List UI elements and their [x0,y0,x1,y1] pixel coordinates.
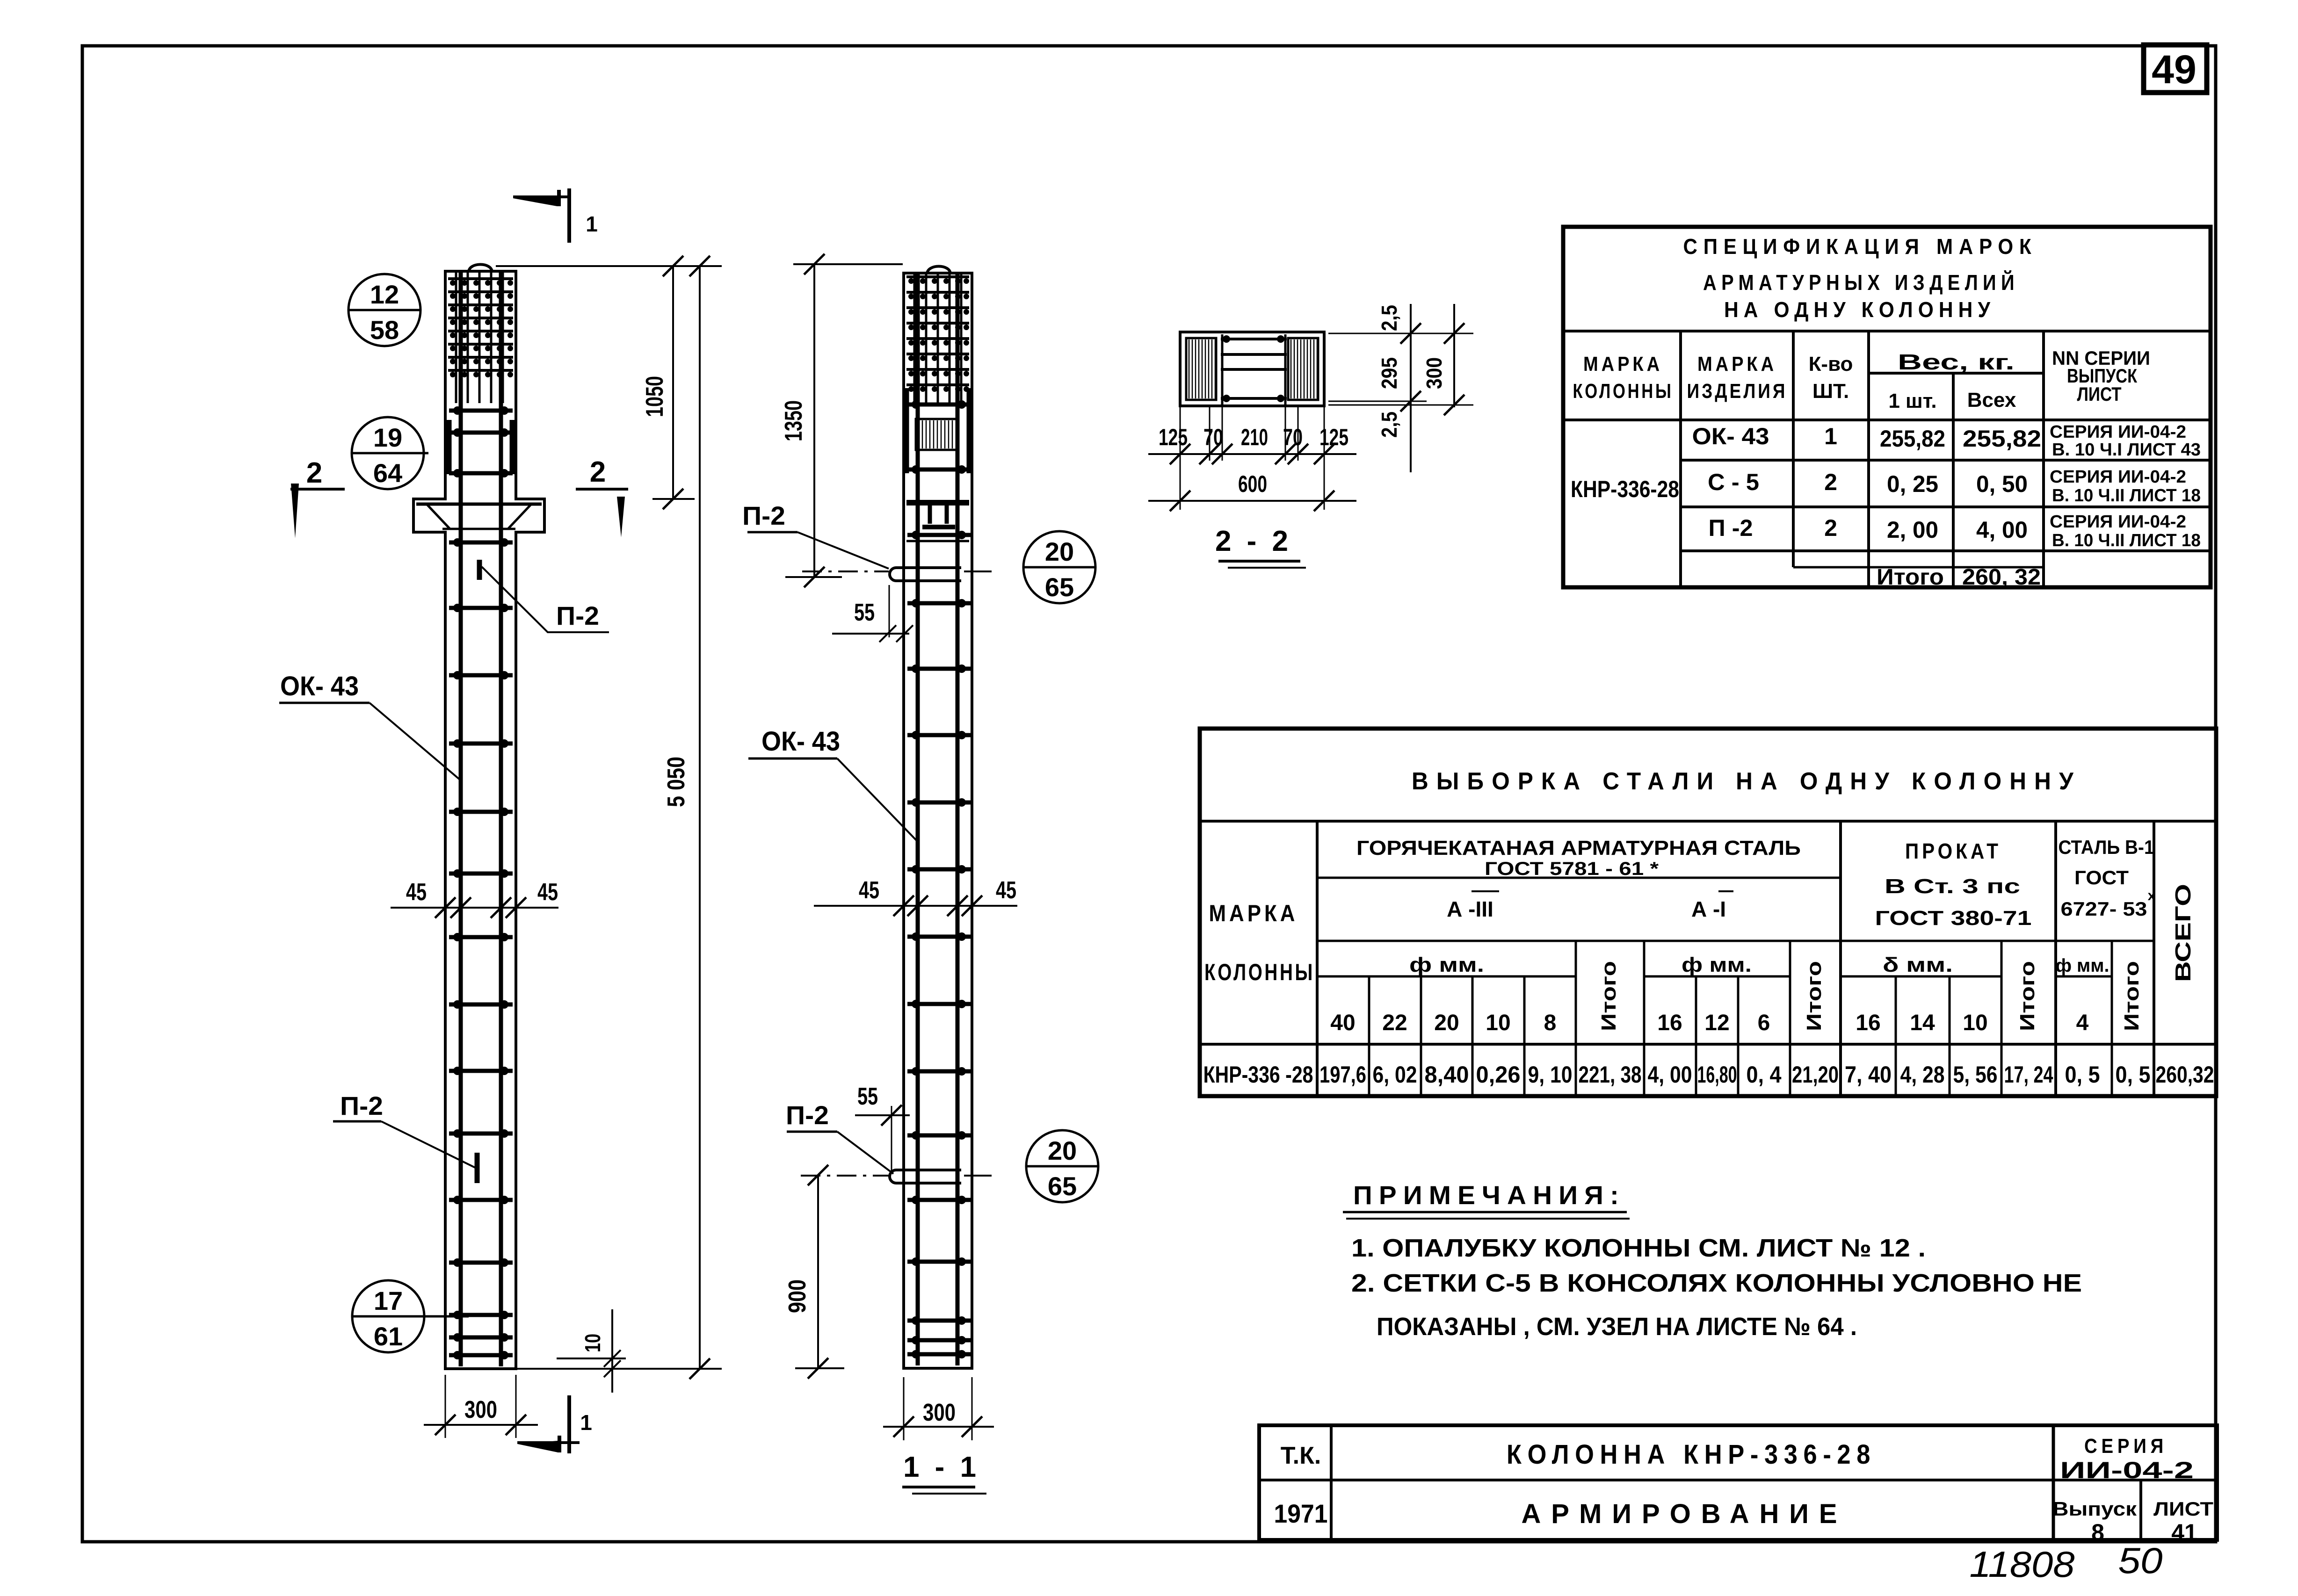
left column stirrups [449,409,513,413]
svg-text:КОЛОННЫ: КОЛОННЫ [1573,380,1674,403]
svg-text:СЕРИЯ ИИ-04-2: СЕРИЯ ИИ-04-2 [2050,467,2186,487]
svg-text:65: 65 [1048,1171,1077,1201]
svg-text:П-2: П-2 [340,1091,383,1120]
node marker 20/65 (lower) [1026,1130,1098,1202]
svg-text:1: 1 [580,1410,592,1435]
svg-text:41: 41 [2171,1519,2197,1545]
dimension 1050 [672,266,674,499]
svg-text:61: 61 [374,1322,403,1351]
svg-text:ЛИСТ: ЛИСТ [2077,383,2122,405]
svg-text:1 - 1: 1 - 1 [903,1451,980,1483]
svg-text:4, 00: 4, 00 [1648,1062,1692,1088]
svg-text:Итого: Итого [1597,961,1620,1031]
svg-text:2: 2 [306,457,322,489]
svg-text:8,40: 8,40 [1425,1062,1469,1088]
svg-text:Т.К.: Т.К. [1281,1442,1321,1469]
svg-text:ПРИМЕЧАНИЯ:: ПРИМЕЧАНИЯ: [1353,1180,1625,1210]
left column concrete outline with corbel [413,271,544,1369]
left column top mesh horizontal bars [448,277,513,280]
svg-text:4: 4 [2076,1011,2089,1035]
svg-text:295: 295 [1377,357,1401,389]
leader П-2 (upper right) [797,532,889,569]
right column stirrups [907,403,971,407]
П-2 hairpin (upper, right column) [890,568,961,581]
svg-text:ГОСТ: ГОСТ [2074,867,2129,888]
steel selection table frame [1200,729,2216,1096]
left column main longitudinal rebars OK-43 [459,272,463,1366]
svg-text:АРМИРОВАНИЕ: АРМИРОВАНИЕ [1522,1499,1848,1529]
svg-text:1: 1 [1824,423,1837,449]
svg-text:КНР-336-28: КНР-336-28 [1571,476,1679,502]
svg-text:СПЕЦИФИКАЦИЯ МАРОК: СПЕЦИФИКАЦИЯ МАРОК [1683,234,2037,259]
svg-text:1050: 1050 [641,376,668,417]
svg-text:1350: 1350 [780,400,807,441]
svg-text:20: 20 [1434,1011,1459,1035]
svg-text:ГОСТ 380-71: ГОСТ 380-71 [1875,907,2032,930]
sheet number box 49 [2144,45,2207,93]
svg-text:49: 49 [2152,47,2197,92]
title block horizontal divider [1259,1479,2217,1481]
dimension 45 45 (left column) [391,907,558,909]
leader П-2 (lower right) [837,1132,893,1174]
svg-text:Итого: Итого [1877,565,1944,590]
svg-text:260, 32: 260, 32 [1962,565,2041,590]
svg-text:ПОКАЗАНЫ , СМ. УЗЕЛ НА Л: ПОКАЗАНЫ , СМ. УЗЕЛ НА ЛИСТЕ № 64 . [1377,1313,1857,1341]
svg-text:4, 00: 4, 00 [1976,517,2028,543]
svg-text:ГОСТ 5781 - 61 *: ГОСТ 5781 - 61 * [1485,859,1659,879]
dimension 55 (lower) [891,1106,892,1171]
svg-text:МАРКА: МАРКА [1697,353,1777,376]
svg-text:В. 10 Ч.II ЛИСТ 18: В. 10 Ч.II ЛИСТ 18 [2052,486,2201,506]
svg-text:11808: 11808 [1970,1544,2075,1585]
svg-text:12: 12 [370,280,399,309]
svg-text:600: 600 [1238,471,1267,497]
svg-text:х: х [2148,888,2156,903]
node marker 12/58 [348,274,420,346]
svg-text:ф мм.: ф мм. [2056,955,2110,976]
svg-text:10: 10 [580,1334,605,1352]
svg-text:В. 10 Ч.II ЛИСТ 18: В. 10 Ч.II ЛИСТ 18 [2052,531,2201,550]
svg-text:ИЗДЕЛИЯ: ИЗДЕЛИЯ [1687,380,1788,403]
svg-text:АРМАТУРНЫХ ИЗДЕЛИЙ: АРМАТУРНЫХ ИЗДЕЛИЙ [1703,270,2019,295]
svg-text:45: 45 [406,879,427,906]
dimension 10 (left column bottom) [516,1368,722,1370]
section 2-2 right dims 2,5 295 2,5 300 [1328,333,1473,334]
section 2-2 inner cage verticals [1221,334,1224,405]
П-2 hairpin (lower, right column) [890,1170,961,1183]
svg-text:300: 300 [464,1396,497,1423]
svg-text:К-во: К-во [1809,353,1853,376]
leader ОК-43 to left column bar [370,703,460,780]
svg-text:210: 210 [1241,424,1268,450]
section 2-2 dims 125 70 210 70 125 [1180,406,1181,510]
left column corbel inner lines [416,503,542,506]
svg-text:125: 125 [1159,424,1188,450]
svg-text:5, 56: 5, 56 [1953,1062,1998,1088]
svg-text:21,20: 21,20 [1792,1062,1839,1088]
section 2-2 left hatched block [1186,338,1216,400]
svg-text:Вес, кг.: Вес, кг. [1898,350,2015,374]
svg-text:ШТ.: ШТ. [1812,380,1849,403]
svg-text:45: 45 [996,877,1016,904]
svg-text:П-2: П-2 [556,601,599,630]
svg-text:16: 16 [1856,1011,1880,1035]
right column edge splice bars [904,388,909,473]
dimension 300 (right column) [903,1377,905,1440]
svg-text:СЕРИЯ ИИ-04-2: СЕРИЯ ИИ-04-2 [2050,512,2186,532]
svg-text:2: 2 [590,456,606,488]
section 2-2 outline [1180,332,1324,406]
П-2 hairpin end (lower, left column) [475,1153,480,1183]
svg-text:Итого: Итого [2016,961,2039,1031]
svg-text:ф мм.: ф мм. [1682,953,1752,976]
svg-text:ИИ-04-2: ИИ-04-2 [2060,1457,2194,1483]
svg-text:Итого: Итого [2120,961,2143,1031]
svg-text:8: 8 [2091,1519,2104,1545]
svg-text:ВЫБОРКА СТАЛИ НА ОДНУ: ВЫБОРКА СТАЛИ НА ОДНУ КОЛОННУ [1412,768,2081,795]
right column concrete outline [904,273,972,1368]
svg-text:Всех: Всех [1967,389,2016,412]
section mark 1 (bottom) [518,1441,558,1452]
svg-text:ф мм.: ф мм. [1409,953,1484,976]
svg-text:16: 16 [1657,1011,1682,1035]
svg-text:12: 12 [1704,1011,1729,1035]
left column top lifting hook [469,265,492,273]
dimension 55 (upper) [889,585,890,637]
svg-text:55: 55 [857,1083,878,1110]
svg-text:70: 70 [1283,424,1303,450]
leader ОК-43 to right column [837,758,918,842]
svg-text:9, 10: 9, 10 [1528,1062,1573,1088]
svg-text:260,32: 260,32 [2156,1062,2214,1088]
right column top mesh horizontal bars [906,275,969,278]
svg-text:С - 5: С - 5 [1708,469,1759,495]
svg-text:2: 2 [1824,469,1837,495]
svg-text:КНР-336 -28: КНР-336 -28 [1203,1062,1313,1088]
svg-text:221, 38: 221, 38 [1579,1062,1642,1088]
dimension 900 [817,1175,819,1368]
svg-text:45: 45 [537,879,558,906]
steel table verticals [1316,821,1319,1096]
svg-text:ОК- 43: ОК- 43 [761,726,840,757]
embedded I-beam (right column) [906,500,969,506]
svg-text:58: 58 [370,315,399,345]
svg-text:ОК- 43: ОК- 43 [280,671,359,701]
node marker 20/65 (upper) [1023,531,1095,603]
svg-text:900: 900 [784,1279,811,1313]
svg-text:10: 10 [1963,1011,1987,1035]
svg-text:МАРКА: МАРКА [1209,900,1298,926]
svg-text:2. СЕТКИ С-5 В КОНСОЛЯХ: 2. СЕТКИ С-5 В КОНСОЛЯХ КОЛОННЫ УСЛОВНО … [1351,1269,2082,1297]
svg-text:65: 65 [1045,572,1074,602]
svg-text:0, 5: 0, 5 [2116,1062,2151,1088]
svg-text:2: 2 [1824,515,1837,541]
svg-text:20: 20 [1048,1136,1077,1165]
svg-text:300: 300 [923,1399,956,1426]
steel table horizontals [1200,820,2216,823]
svg-text:1971: 1971 [1274,1499,1328,1528]
svg-text:В. 10 Ч.I ЛИСТ 43: В. 10 Ч.I ЛИСТ 43 [2052,440,2201,460]
left column edge splice bars [447,420,452,474]
svg-text:40: 40 [1330,1011,1355,1035]
svg-text:14: 14 [1910,1011,1935,1035]
svg-text:НА ОДНУ КОЛОННУ: НА ОДНУ КОЛОННУ [1724,297,1995,322]
right column top lifting hook [927,267,950,274]
svg-text:ЛИСТ: ЛИСТ [2153,1498,2213,1520]
svg-text:А -III: А -III [1447,897,1493,921]
title block frame [1259,1425,2217,1540]
svg-text:1 шт.: 1 шт. [1888,390,1936,412]
svg-text:45: 45 [859,877,879,904]
svg-text:70: 70 [1203,424,1223,450]
axis dash-dot line (lower hairpin) [801,1175,889,1177]
svg-text:2, 00: 2, 00 [1887,517,1938,543]
svg-text:64: 64 [373,458,402,488]
svg-text:0, 50: 0, 50 [1976,471,2028,497]
svg-text:ПРОКАТ: ПРОКАТ [1905,839,2001,863]
svg-text:125: 125 [1319,424,1348,450]
svg-text:20: 20 [1045,537,1074,566]
svg-text:6727- 53: 6727- 53 [2061,898,2147,920]
svg-text:СЕРИЯ ИИ-04-2: СЕРИЯ ИИ-04-2 [2050,422,2186,442]
П-2 hairpin end (upper, left column) [477,560,482,580]
svg-text:А -I: А -I [1691,897,1726,921]
svg-text:255,82: 255,82 [1880,426,1945,452]
svg-text:2 - 2: 2 - 2 [1215,525,1292,557]
svg-text:2,5: 2,5 [1377,305,1401,331]
svg-text:7, 40: 7, 40 [1845,1062,1892,1088]
svg-text:ОК- 43: ОК- 43 [1692,423,1769,449]
svg-text:ГОРЯЧЕКАТАНАЯ АРМАТУРНАЯ СТ: ГОРЯЧЕКАТАНАЯ АРМАТУРНАЯ СТАЛЬ [1356,837,1801,859]
svg-text:5 050: 5 050 [663,757,690,807]
leader to П-2 label (upper left column) [482,567,609,632]
svg-text:0, 5: 0, 5 [2065,1062,2100,1088]
svg-text:ВСЕГО: ВСЕГО [2171,884,2195,982]
svg-text:50: 50 [2118,1540,2163,1581]
svg-text:МАРКА: МАРКА [1583,353,1663,376]
svg-text:0, 25: 0, 25 [1887,471,1938,497]
svg-text:1: 1 [586,212,598,236]
spec table horizontals [1563,330,2211,332]
svg-text:10: 10 [1486,1011,1510,1035]
svg-text:0,26: 0,26 [1476,1062,1521,1088]
svg-text:19: 19 [373,423,402,452]
svg-text:2,5: 2,5 [1377,412,1401,438]
svg-text:1. ОПАЛУБКУ КОЛОННЫ СМ.: 1. ОПАЛУБКУ КОЛОННЫ СМ. ЛИСТ № 12 . [1351,1234,1926,1262]
svg-text:6: 6 [1758,1011,1770,1035]
svg-text:δ мм.: δ мм. [1883,953,1953,976]
svg-text:Итого: Итого [1803,961,1826,1031]
dimension 45 45 (right column) [814,905,1017,907]
svg-text:КОЛОННА КНР-336-28: КОЛОННА КНР-336-28 [1507,1439,1876,1470]
svg-text:22: 22 [1382,1011,1407,1035]
spec table verticals [1679,331,1682,587]
svg-text:СЕРИЯ: СЕРИЯ [2084,1435,2168,1458]
svg-text:197,6: 197,6 [1319,1062,1366,1088]
top dimension line [496,265,722,267]
svg-text:8: 8 [1544,1011,1557,1035]
svg-text:17, 24: 17, 24 [2004,1062,2053,1088]
svg-text:П-2: П-2 [742,501,785,530]
section 2-2 right hatched block [1288,338,1318,400]
svg-text:300: 300 [1422,357,1446,389]
svg-text:КОЛОННЫ: КОЛОННЫ [1204,959,1315,985]
specification table frame [1563,227,2211,587]
section 2-2 inner horizontal bars [1221,338,1287,340]
dimension 5050 [699,266,701,1369]
embedded hatched plate (right column) [916,419,958,450]
svg-text:16,80: 16,80 [1697,1062,1737,1088]
svg-text:255,82: 255,82 [1963,426,2041,452]
right column main longitudinal rebars [916,274,920,1365]
node marker 17/61 [352,1280,424,1352]
section 2-2 dim 600 [1148,500,1356,502]
dimension 300 (left column) [445,1375,446,1438]
svg-text:Выпуск: Выпуск [2052,1498,2137,1520]
node marker 19/64 [352,417,424,489]
section mark 1 (top) [513,196,557,206]
leader П-2 to lower hairpin [381,1121,476,1168]
svg-text:17: 17 [374,1286,403,1315]
title block verticals [1330,1425,1333,1540]
svg-text:6, 02: 6, 02 [1373,1062,1417,1088]
left column top mesh vertical bars [455,272,457,403]
svg-text:55: 55 [854,599,875,626]
svg-text:0, 4: 0, 4 [1747,1062,1782,1088]
svg-text:П-2: П-2 [786,1100,829,1130]
svg-text:П -2: П -2 [1709,515,1753,541]
svg-text:4, 28: 4, 28 [1900,1062,1945,1088]
right column top mesh vertical bars [913,274,916,405]
svg-text:СТАЛЬ В-1: СТАЛЬ В-1 [2059,836,2154,858]
dimension 1350 [793,263,903,265]
axis dash-dot line (upper hairpin) [802,571,889,572]
svg-text:В Ст. 3 пс: В Ст. 3 пс [1885,875,2020,898]
